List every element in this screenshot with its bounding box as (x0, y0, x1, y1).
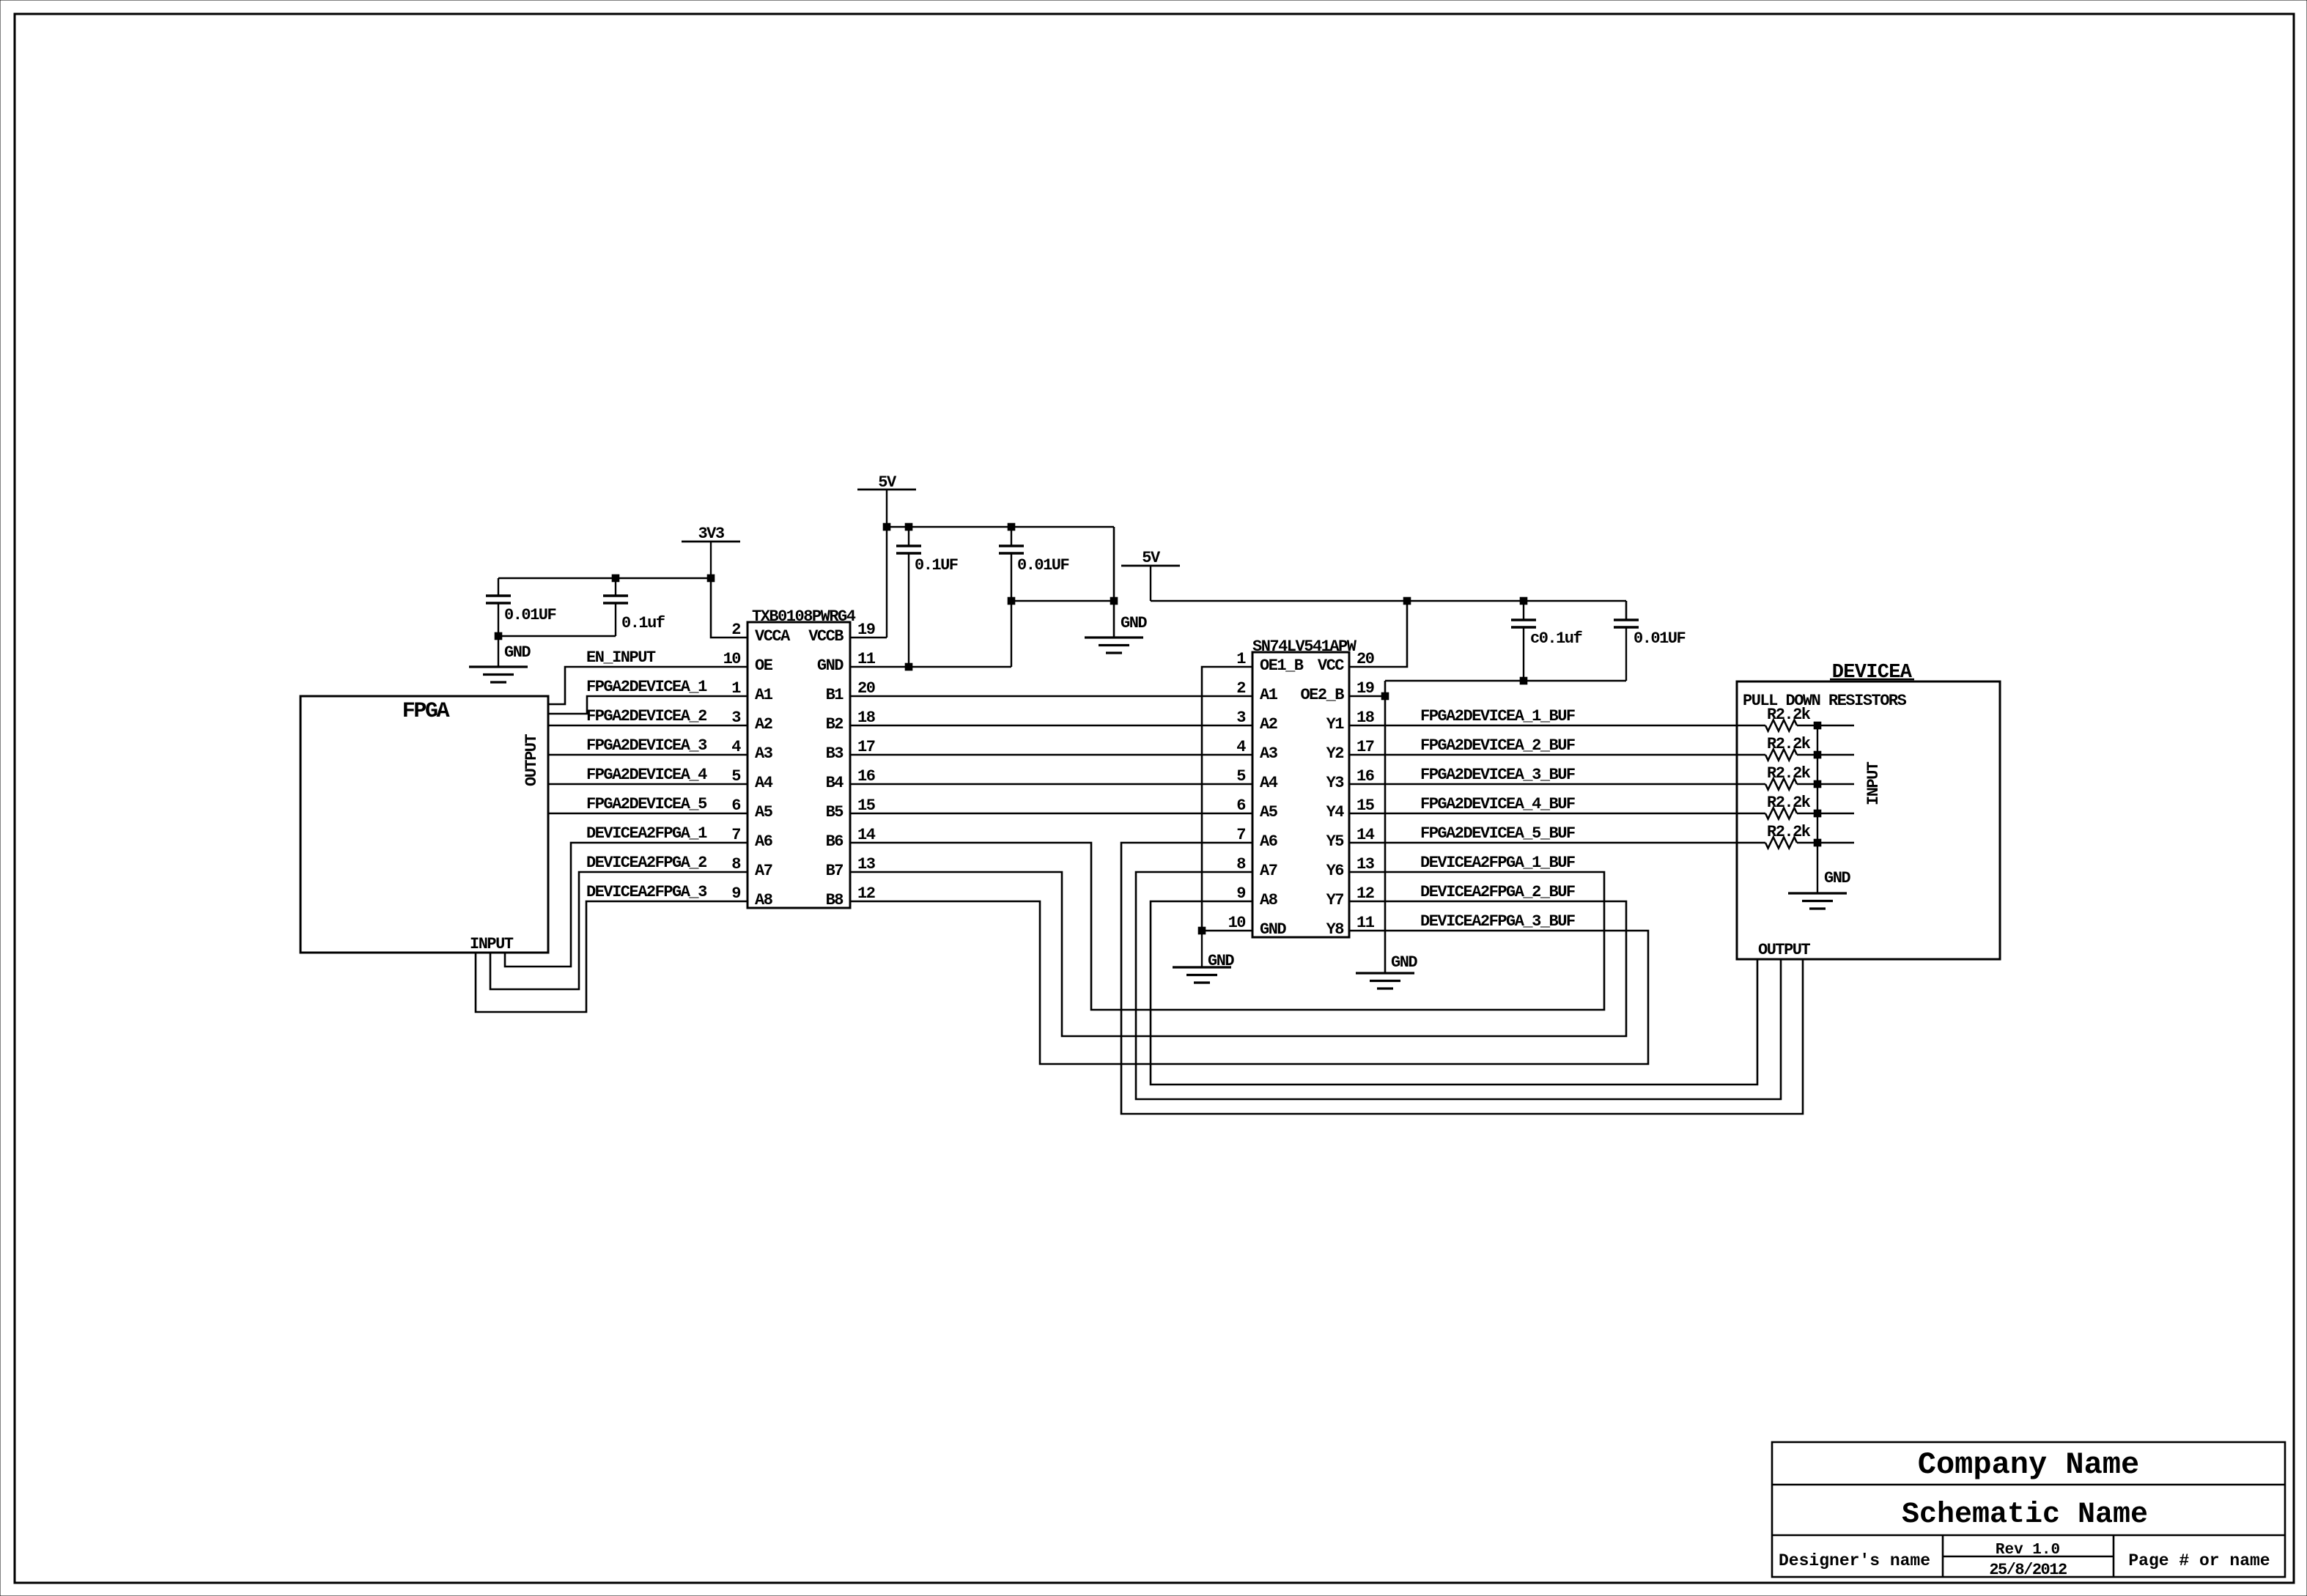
U2 pin number 14 (Y5) (1356, 826, 1375, 844)
svg-text:OUTPUT: OUTPUT (523, 734, 541, 786)
junction R1 output (1814, 722, 1821, 729)
wire 5V rail (U2) (1151, 600, 1626, 602)
svg-text:18: 18 (857, 709, 876, 727)
U2 pin label A3 (1260, 745, 1278, 763)
wire B1 to A1 (850, 695, 1252, 697)
junction C3 bottom (905, 663, 912, 670)
U1 pin number 18 (B2) (857, 709, 876, 727)
U2 pin number 4 (A3) (1236, 738, 1246, 756)
U1 pin number 1 (A1) (731, 679, 741, 698)
resistor R2 2.2k (1765, 750, 1817, 761)
svg-text:16: 16 (1356, 767, 1374, 786)
svg-text:A5: A5 (1260, 803, 1278, 821)
GND label U2 left (1208, 952, 1234, 970)
svg-text:B7: B7 (826, 862, 844, 880)
power symbol 3V3 (682, 542, 740, 578)
wire VCCA riser (711, 578, 748, 638)
svg-text:17: 17 (857, 738, 875, 756)
svg-text:GND: GND (1260, 920, 1286, 939)
U1 pin number 17 (B3) (857, 738, 875, 756)
U1 pin label A2 (755, 715, 772, 734)
wire 5V rail (U1) (887, 526, 1114, 528)
C1 value 0.01UF (504, 606, 556, 624)
svg-text:DEVICEA2FPGA_1_BUF: DEVICEA2FPGA_1_BUF (1420, 854, 1575, 872)
U1 pin label B2 (826, 715, 844, 734)
svg-text:FPGA2DEVICEA_4: FPGA2DEVICEA_4 (586, 766, 707, 784)
U1 pin label VCCA (755, 627, 791, 646)
svg-text:1: 1 (1236, 650, 1246, 668)
resistor R5 2.2k (1765, 838, 1817, 849)
svg-text:B5: B5 (826, 803, 844, 821)
ground symbol U2 left (1173, 967, 1231, 983)
svg-text:15: 15 (1356, 797, 1375, 815)
U2 pin label GND (1260, 920, 1286, 939)
GND label U1 group (1121, 614, 1147, 632)
FPGA label (402, 699, 450, 724)
U1 pin label A1 (755, 686, 773, 704)
net FPGA2DEVICEA_3_BUF label (1420, 766, 1575, 784)
C2 value 0.1uf (621, 614, 665, 632)
wire VCCB stub (850, 637, 887, 638)
title block column divider 2 (2113, 1535, 2115, 1577)
svg-text:16: 16 (857, 767, 875, 786)
svg-text:4: 4 (731, 738, 741, 756)
net FPGA2DEVICEA_3 label (586, 736, 707, 755)
U1 pin label A8 (755, 891, 773, 909)
U2 pin number 2 (A1) (1236, 679, 1245, 698)
svg-text:GND: GND (817, 657, 844, 675)
svg-text:9: 9 (1236, 884, 1245, 903)
wire R5 stub (1817, 842, 1854, 843)
U1 pin number 11 (GND) (857, 650, 876, 668)
ground symbol DEVICEA (1788, 893, 1847, 909)
svg-text:Page # or name: Page # or name (2128, 1551, 2270, 1570)
U1 pin label B4 (826, 774, 844, 792)
capacitor C4 0.01UF (999, 527, 1024, 667)
svg-text:14: 14 (1356, 826, 1375, 844)
svg-text:DEVICEA2FPGA_3: DEVICEA2FPGA_3 (586, 883, 707, 901)
svg-text:INPUT: INPUT (1864, 761, 1883, 805)
svg-text:B8: B8 (826, 891, 844, 909)
FPGA OUTPUT side label (523, 734, 541, 786)
svg-text:R2.2k: R2.2k (1767, 764, 1811, 783)
svg-text:FPGA: FPGA (402, 699, 450, 724)
svg-text:DEVICEA2FPGA_1: DEVICEA2FPGA_1 (586, 824, 707, 843)
svg-text:FPGA2DEVICEA_4_BUF: FPGA2DEVICEA_4_BUF (1420, 795, 1575, 813)
svg-text:A4: A4 (755, 774, 773, 792)
svg-text:B1: B1 (826, 686, 844, 704)
3V3 label (698, 525, 724, 543)
svg-text:25/8/2012: 25/8/2012 (1989, 1561, 2067, 1579)
U1 pin number 19 (VCCB) (857, 621, 875, 639)
net FPGA2DEVICEA_3_BUF wire (1349, 783, 1765, 785)
svg-text:10: 10 (723, 650, 741, 668)
wire VCC riser (1349, 601, 1407, 667)
svg-text:0.1uf: 0.1uf (621, 614, 665, 632)
wire B8 to Y8 loop (850, 901, 1648, 1064)
junction R2 output (1814, 751, 1821, 758)
junction 3V3/VCCA riser (707, 575, 715, 582)
U2 pin label A5 (1260, 803, 1278, 821)
svg-text:6: 6 (1236, 797, 1245, 815)
svg-text:DEVICEA: DEVICEA (1832, 662, 1913, 684)
wire pulldown bus (1817, 725, 1818, 893)
U1 pin label A7 (755, 862, 772, 880)
company name text (1918, 1447, 2139, 1482)
U2 pin number 16 (Y3) (1356, 767, 1374, 786)
wire 3V3 rail (498, 577, 711, 579)
svg-text:A6: A6 (755, 832, 772, 851)
wire DEVICEA out1 to A8 (1151, 901, 1757, 1085)
wire C1 to ground (498, 636, 499, 667)
svg-text:OE: OE (755, 657, 773, 675)
net FPGA2DEVICEA_5_BUF label (1420, 824, 1575, 843)
wire B2 to A2 (850, 725, 1252, 726)
wire U2 GND pin stub (1202, 930, 1252, 931)
capacitor C6 0.01UF (1614, 601, 1639, 681)
R3 value R2.2k (1767, 764, 1811, 783)
junction VCC riser (1403, 597, 1411, 605)
C4 value 0.01UF (1017, 556, 1069, 575)
junction 0.1uf top (612, 575, 619, 582)
IC U2 SN74LV541APW body (1252, 652, 1349, 937)
U2 pin label A8 (1260, 891, 1278, 909)
C6 value 0.01UF (1634, 629, 1686, 648)
svg-text:8: 8 (1236, 855, 1246, 873)
U1 pin number 9 (A8) (731, 884, 740, 903)
GND label DEVICEA (1824, 869, 1850, 887)
power symbol 5V (U2) (1121, 566, 1180, 601)
svg-text:7: 7 (731, 826, 740, 844)
C3 value 0.1UF (915, 556, 958, 575)
svg-text:17: 17 (1356, 738, 1374, 756)
junction C1 bottom (495, 632, 502, 640)
svg-text:DEVICEA2FPGA_2_BUF: DEVICEA2FPGA_2_BUF (1420, 883, 1575, 901)
net FPGA2DEVICEA_1_BUF wire (1349, 725, 1765, 726)
svg-text:B3: B3 (826, 745, 844, 763)
wire U1 GND pin net (850, 666, 1011, 668)
svg-text:0.1UF: 0.1UF (915, 556, 958, 575)
net FPGA2DEVICEA_1 wire (548, 696, 748, 714)
capacitor C2 0.1uf (603, 578, 628, 636)
DEVICEA block (1737, 681, 2000, 959)
ground symbol left (469, 667, 528, 682)
net DEVICEA2FPGA_3_BUF label (1420, 912, 1575, 931)
svg-text:B2: B2 (826, 715, 844, 734)
wire R1 stub (1817, 725, 1854, 726)
R1 value R2.2k (1767, 706, 1811, 724)
date text (1989, 1561, 2067, 1579)
wire B7 to Y7 loop (850, 872, 1626, 1036)
resistor R4 2.2k (1765, 808, 1817, 819)
svg-text:GND: GND (1391, 953, 1417, 972)
rev text (1996, 1542, 2060, 1559)
svg-text:7: 7 (1236, 826, 1245, 844)
junction C3 top (905, 523, 912, 531)
net FPGA2DEVICEA_2_BUF label (1420, 736, 1575, 755)
svg-text:3: 3 (1236, 709, 1246, 727)
svg-text:A7: A7 (755, 862, 772, 880)
svg-text:20: 20 (1356, 650, 1374, 668)
svg-text:19: 19 (1356, 679, 1374, 698)
U1 pin label B7 (826, 862, 844, 880)
U2 pin label A1 (1260, 686, 1278, 704)
title block row divider 2 (1772, 1534, 2285, 1537)
svg-text:Y3: Y3 (1326, 774, 1345, 792)
wire B6 to Y6 loop (850, 843, 1604, 1010)
net FPGA2DEVICEA_4 label (586, 766, 707, 784)
svg-text:8: 8 (731, 855, 741, 873)
svg-text:GND: GND (1208, 952, 1234, 970)
svg-text:FPGA2DEVICEA_3_BUF: FPGA2DEVICEA_3_BUF (1420, 766, 1575, 784)
svg-text:19: 19 (857, 621, 875, 639)
wire OE2_B stub (1349, 695, 1385, 697)
wire C4 bottom tie (1011, 600, 1114, 602)
svg-text:11: 11 (1356, 914, 1375, 932)
U2 pin label A4 (1260, 774, 1278, 792)
U1 pin label OE (755, 657, 773, 675)
U1 pin label A6 (755, 832, 772, 851)
wire OE1_B tie (1202, 667, 1252, 931)
svg-text:DEVICEA2FPGA_3_BUF: DEVICEA2FPGA_3_BUF (1420, 912, 1575, 931)
svg-text:R2.2k: R2.2k (1767, 706, 1811, 724)
U2 pin number 8 (A7) (1236, 855, 1246, 873)
svg-text:FPGA2DEVICEA_1: FPGA2DEVICEA_1 (586, 678, 707, 696)
svg-text:OE1_B: OE1_B (1260, 657, 1304, 675)
svg-text:Designer's name: Designer's name (1779, 1551, 1930, 1570)
svg-text:15: 15 (857, 797, 876, 815)
U2 pin number 6 (A5) (1236, 797, 1245, 815)
svg-text:OUTPUT: OUTPUT (1758, 941, 1811, 959)
net FPGA2DEVICEA_5_BUF wire (1349, 842, 1765, 843)
svg-text:Y5: Y5 (1326, 832, 1345, 851)
wire OE2_B gnd drop (1384, 681, 1387, 973)
U2 pin label Y1 (1326, 715, 1345, 734)
junction OE1_B/GND (1198, 927, 1206, 934)
wire B3 to A3 (850, 754, 1252, 755)
net FPGA2DEVICEA_2_BUF wire (1349, 754, 1765, 755)
U2 pin label Y6 (1326, 862, 1344, 880)
U2 pin number 19 (OE2_B) (1356, 679, 1374, 698)
designer name text (1779, 1551, 1930, 1570)
U1 pin label B5 (826, 803, 844, 821)
U2 pin number 9 (A8) (1236, 884, 1245, 903)
wire B5 to A5 (850, 813, 1252, 814)
svg-text:6: 6 (731, 797, 740, 815)
net FPGA2DEVICEA_3 wire (548, 754, 748, 755)
U2 pin label A7 (1260, 862, 1277, 880)
ground symbol U1 group (1085, 638, 1143, 653)
net DEVICEA2FPGA_1 wire (505, 843, 748, 967)
svg-text:R2.2k: R2.2k (1767, 735, 1811, 753)
svg-text:4: 4 (1236, 738, 1246, 756)
title block frame (1772, 1442, 2285, 1577)
svg-text:Y1: Y1 (1326, 715, 1345, 734)
net FPGA2DEVICEA_4_BUF wire (1349, 813, 1765, 814)
svg-text:A8: A8 (1260, 891, 1278, 909)
svg-text:A7: A7 (1260, 862, 1277, 880)
svg-text:DEVICEA2FPGA_2: DEVICEA2FPGA_2 (586, 854, 706, 872)
R4 value R2.2k (1767, 794, 1811, 812)
C5 value c0.1uf (1530, 629, 1583, 648)
svg-text:A3: A3 (1260, 745, 1278, 763)
IC U2 name label (1252, 638, 1357, 656)
U2 pin number 17 (Y2) (1356, 738, 1374, 756)
net EN_INPUT wire (548, 667, 748, 704)
svg-text:18: 18 (1356, 709, 1375, 727)
svg-text:3: 3 (731, 709, 741, 727)
U1 pin label VCCB (808, 627, 844, 646)
net DEVICEA2FPGA_1_BUF label (1420, 854, 1575, 872)
U2 pin number 7 (A6) (1236, 826, 1245, 844)
svg-text:VCC: VCC (1318, 657, 1344, 675)
5V label (U2) (1142, 549, 1161, 567)
U1 pin number 8 (A7) (731, 855, 741, 873)
U2 pin number 11 (Y8) (1356, 914, 1375, 932)
IC U1 TXB0108PWRG4 body (748, 622, 850, 908)
U2 pin label Y7 (1326, 891, 1344, 909)
net DEVICEA2FPGA_1 label (586, 824, 707, 843)
capacitor C1 0.01UF (486, 578, 511, 636)
U2 pin number 10 (GND) (1228, 914, 1246, 932)
U1 pin number 14 (B6) (857, 826, 876, 844)
resistor R1 2.2k (1765, 720, 1817, 731)
junction OE2_B (1381, 692, 1389, 700)
schematic name text (1902, 1499, 2148, 1532)
R2 value R2.2k (1767, 735, 1811, 753)
title block row divider 1 (1772, 1484, 2285, 1486)
U1 pin number 3 (A2) (731, 709, 741, 727)
net FPGA2DEVICEA_5 label (586, 795, 707, 813)
svg-text:2: 2 (1236, 679, 1245, 698)
svg-text:5: 5 (731, 767, 741, 786)
U2 pin number 3 (A2) (1236, 709, 1246, 727)
svg-text:R2.2k: R2.2k (1767, 823, 1811, 841)
U2 pin number 13 (Y6) (1356, 855, 1375, 873)
svg-text:9: 9 (731, 884, 740, 903)
svg-text:5V: 5V (1142, 549, 1161, 567)
svg-text:20: 20 (857, 679, 875, 698)
U2 pin number 1 (OE1_B) (1236, 650, 1246, 668)
U1 pin number 13 (B7) (857, 855, 876, 873)
U2 pin label A6 (1260, 832, 1277, 851)
svg-text:FPGA2DEVICEA_5_BUF: FPGA2DEVICEA_5_BUF (1420, 824, 1575, 843)
svg-text:GND: GND (1121, 614, 1147, 632)
net FPGA2DEVICEA_4 wire (548, 783, 748, 785)
junction C4 top (1008, 523, 1015, 531)
junction C4 bottom (1008, 597, 1015, 605)
junction R5 output (1814, 839, 1821, 846)
DEVICEA label underline (1830, 679, 1914, 680)
svg-text:0.01UF: 0.01UF (1634, 629, 1686, 648)
svg-text:INPUT: INPUT (470, 935, 514, 953)
svg-text:A5: A5 (755, 803, 773, 821)
U1 pin label GND (817, 657, 844, 675)
capacitor C3 0.1UF (896, 527, 921, 667)
U2 pin label VCC (1318, 657, 1344, 675)
U1 pin label B3 (826, 745, 844, 763)
svg-text:A1: A1 (755, 686, 773, 704)
svg-text:5V: 5V (878, 473, 897, 492)
U2 pin number 12 (Y7) (1356, 884, 1374, 903)
U1 pin number 4 (A3) (731, 738, 741, 756)
PULL DOWN RESISTORS note (1743, 692, 1907, 710)
net DEVICEA2FPGA_2 wire (490, 872, 748, 989)
ground symbol U2 right (1356, 973, 1414, 989)
junction R3 output (1814, 780, 1821, 788)
svg-text:A2: A2 (755, 715, 772, 734)
svg-text:SN74LV541APW: SN74LV541APW (1252, 638, 1357, 656)
U1 pin number 12 (B8) (857, 884, 875, 903)
wire 5V rail drop (1113, 527, 1115, 638)
svg-text:Rev 1.0: Rev 1.0 (1996, 1542, 2060, 1559)
net DEVICEA2FPGA_3 wire (476, 901, 748, 1012)
svg-text:Y8: Y8 (1326, 920, 1345, 939)
DEVICEA label (1832, 662, 1913, 684)
U1 pin number 7 (A6) (731, 826, 740, 844)
U2 pin label Y4 (1326, 803, 1345, 821)
net FPGA2DEVICEA_1_BUF label (1420, 707, 1575, 725)
svg-text:A4: A4 (1260, 774, 1278, 792)
U1 pin label A3 (755, 745, 773, 763)
junction 5V lead (883, 523, 890, 531)
5V label (U1) (878, 473, 897, 492)
svg-text:OE2_B: OE2_B (1300, 686, 1344, 704)
wire DEVICEA out2 to A7 (1136, 872, 1781, 1099)
capacitor C5 c0.1uf (1511, 601, 1536, 681)
power symbol 5V (U1) (857, 489, 916, 638)
net FPGA2DEVICEA_4_BUF label (1420, 795, 1575, 813)
svg-text:FPGA2DEVICEA_3: FPGA2DEVICEA_3 (586, 736, 707, 755)
svg-text:R2.2k: R2.2k (1767, 794, 1811, 812)
svg-text:14: 14 (857, 826, 876, 844)
wire R3 stub (1817, 783, 1854, 785)
svg-text:Y6: Y6 (1326, 862, 1344, 880)
svg-text:FPGA2DEVICEA_2_BUF: FPGA2DEVICEA_2_BUF (1420, 736, 1575, 755)
junction gnd drop (1110, 597, 1118, 605)
U1 pin number 10 (OE) (723, 650, 741, 668)
U2 pin label OE2_B (1300, 686, 1344, 704)
FPGA INPUT side label (470, 935, 514, 953)
title block column divider 1 (1942, 1535, 1944, 1577)
U2 pin label OE1_B (1260, 657, 1304, 675)
svg-text:12: 12 (857, 884, 875, 903)
net FPGA2DEVICEA_5 wire (548, 813, 748, 814)
U1 pin label A4 (755, 774, 773, 792)
net DEVICEA2FPGA_3 label (586, 883, 707, 901)
svg-text:A2: A2 (1260, 715, 1277, 734)
svg-text:c0.1uf: c0.1uf (1530, 629, 1583, 648)
svg-text:11: 11 (857, 650, 876, 668)
svg-text:1: 1 (731, 679, 741, 698)
net DEVICEA2FPGA_2 label (586, 854, 706, 872)
svg-text:A1: A1 (1260, 686, 1278, 704)
svg-text:TXB0108PWRG4: TXB0108PWRG4 (752, 607, 856, 626)
U1 pin number 6 (A5) (731, 797, 740, 815)
svg-text:0.01UF: 0.01UF (504, 606, 556, 624)
svg-text:5: 5 (1236, 767, 1246, 786)
U1 pin label B6 (826, 832, 844, 851)
svg-text:GND: GND (504, 643, 531, 662)
junction C5 bottom (1520, 677, 1527, 684)
junction C5 top (1520, 597, 1527, 605)
net FPGA2DEVICEA_2 label (586, 707, 706, 725)
svg-text:FPGA2DEVICEA_1_BUF: FPGA2DEVICEA_1_BUF (1420, 707, 1575, 725)
wire R2 stub (1817, 754, 1854, 755)
U2 pin number 18 (Y1) (1356, 709, 1375, 727)
U1 pin number 20 (B1) (857, 679, 875, 698)
GND label left (504, 643, 531, 662)
